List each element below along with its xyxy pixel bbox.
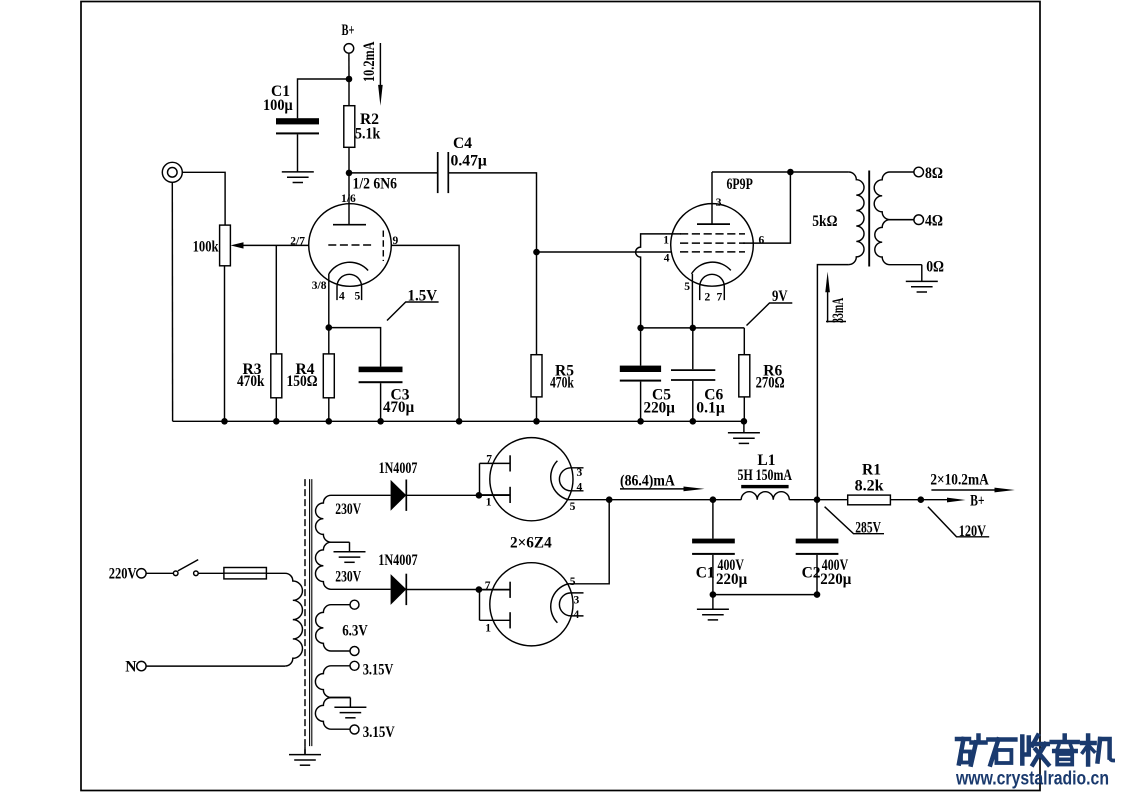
svg-text:7: 7 <box>485 580 491 592</box>
wire cathode node to C3 <box>329 328 381 367</box>
junction dot cathode/C5 <box>637 325 644 332</box>
wire 6.3V top terminal <box>350 600 359 609</box>
capacitor C1 100u <box>276 118 319 124</box>
wire g3 to cathode with hop <box>636 234 681 328</box>
input jack <box>162 162 182 182</box>
6Z4 lower cathode arc <box>551 584 568 623</box>
T1 3.15V winding lower <box>315 698 350 730</box>
svg-text:100μ: 100μ <box>263 97 293 114</box>
6Z4 upper pin7 lead and plate <box>480 462 510 464</box>
svg-text:3.15V: 3.15V <box>363 724 396 741</box>
svg-text:4: 4 <box>339 290 345 302</box>
6Z4 upper pin1 lead and plate <box>480 494 510 496</box>
wire C4 to R5 top corner <box>448 173 536 252</box>
junction dot C2 bottom <box>814 591 821 598</box>
6P9P plate bar <box>697 223 730 225</box>
svg-text:C2: C2 <box>802 564 821 581</box>
tube 6P9P envelope <box>671 204 754 287</box>
svg-text:1N4007: 1N4007 <box>378 552 418 569</box>
svg-text:C4: C4 <box>453 135 472 152</box>
svg-text:1: 1 <box>485 623 491 635</box>
svg-text:230V: 230V <box>335 568 361 585</box>
junction dot cathode node 6N6 <box>326 324 333 331</box>
ground at HV center tap <box>334 552 366 563</box>
switch S1 <box>173 571 178 576</box>
6Z4 lower pin7 lead and plate <box>480 589 510 591</box>
junction dot C1 filter node <box>710 496 717 503</box>
svg-text:C1: C1 <box>696 564 715 581</box>
svg-text:1.5V: 1.5V <box>408 288 438 305</box>
wire L1 to R1 <box>789 499 847 501</box>
svg-text:6.3V: 6.3V <box>342 623 368 640</box>
wire junction to R2 <box>348 79 350 106</box>
6N6 plate lead <box>348 173 350 225</box>
wire HV center tap <box>349 542 351 552</box>
6P9P grid g3 dashed <box>680 233 745 235</box>
wire junction to C1 <box>298 79 350 118</box>
svg-text:7: 7 <box>717 291 723 303</box>
ground bus top circuit <box>173 420 744 422</box>
junction dot rectifier output <box>606 496 613 503</box>
6Z4 lower anode bracket <box>479 590 481 621</box>
ground at 3.15V tap <box>334 707 366 718</box>
capacitor C5 220u <box>640 328 642 366</box>
junction dot 6P9P grid node <box>533 249 540 256</box>
OPT core <box>868 171 870 267</box>
junction dot D1 node <box>476 492 483 499</box>
wire cathode node to R4 <box>328 328 330 354</box>
svg-text:5H 150mA: 5H 150mA <box>738 467 793 484</box>
wire R3 dropline from wiper line <box>275 245 277 354</box>
wire R5 to ground bus <box>536 397 538 421</box>
svg-text:33mA: 33mA <box>830 297 847 323</box>
svg-text:220μ: 220μ <box>820 571 851 588</box>
svg-text:1: 1 <box>486 497 492 509</box>
6P9P grid g1 dashed <box>680 251 745 253</box>
annotation 1.5V pointer <box>387 302 439 321</box>
node 4 ohm terminal <box>914 215 924 225</box>
ground below C1 <box>282 172 314 183</box>
OPT secondary bottom section <box>875 220 922 265</box>
svg-text:2: 2 <box>705 291 711 303</box>
6P9P heater <box>700 274 725 300</box>
resistor R3 body <box>271 354 282 398</box>
T1 HV secondary lower <box>315 542 390 589</box>
wire grid node down to R5 <box>536 252 538 355</box>
resistor R5 body <box>531 355 542 397</box>
junction dot plate node <box>346 170 353 177</box>
wire plate node to C4 <box>349 172 438 174</box>
svg-text:120V: 120V <box>959 523 987 540</box>
svg-text:8.2k: 8.2k <box>855 478 884 495</box>
junction dot C1 bottom <box>710 591 717 598</box>
capacitor C2 filter 220u <box>816 500 818 539</box>
6N6 heater <box>337 274 362 300</box>
svg-text:0.1μ: 0.1μ <box>696 399 725 416</box>
junction dot screen/plate supply <box>787 169 794 176</box>
junction dot D2 node <box>476 586 483 593</box>
annotation 285V pointer <box>825 507 884 534</box>
svg-text:100k: 100k <box>193 239 219 256</box>
wire 3.15V center tap <box>349 698 351 708</box>
svg-text:470μ: 470μ <box>383 399 414 416</box>
diode D2 1N4007 <box>391 574 407 605</box>
annotation 2x10.2mA arrow <box>931 489 998 491</box>
svg-text:4: 4 <box>574 609 580 621</box>
6P9P grid g2 dashed <box>680 242 745 244</box>
capacitor C1 filter 220u <box>712 500 714 539</box>
svg-text:7: 7 <box>486 454 492 466</box>
6Z4 upper heater <box>559 468 583 491</box>
svg-text:0.47μ: 0.47μ <box>451 153 488 170</box>
6P9P cathode lead <box>691 274 693 328</box>
svg-text:9V: 9V <box>772 288 788 305</box>
svg-text:9: 9 <box>393 235 399 247</box>
wire R1 to B+ out <box>890 499 947 501</box>
annotation 9V pointer <box>747 303 793 326</box>
svg-text:150Ω: 150Ω <box>287 373 318 390</box>
svg-text:(86.4)mA: (86.4)mA <box>620 472 676 489</box>
transformer T1 core lines <box>309 479 311 746</box>
svg-text:5: 5 <box>570 576 576 588</box>
diode D1 1N4007 <box>391 480 407 511</box>
svg-text:270Ω: 270Ω <box>756 375 785 392</box>
wire D2 to 6Z4 lower <box>406 589 509 591</box>
wire N to primary bottom <box>146 665 285 667</box>
svg-text:220μ: 220μ <box>644 399 676 416</box>
wire filter caps bottom link <box>713 594 817 596</box>
wire 3.15V bottom terminal <box>350 725 359 734</box>
svg-text:3: 3 <box>574 594 580 606</box>
svg-text:2/7: 2/7 <box>290 236 305 248</box>
wire B+ terminal down to junction <box>348 53 350 79</box>
node 220V terminal <box>137 569 146 578</box>
6P9P cathode arc <box>692 262 731 274</box>
svg-text:470k: 470k <box>550 375 574 392</box>
6Z4 lower heater <box>559 593 583 616</box>
capacitor C6 0.1u <box>692 328 694 369</box>
wire rectifier output rail <box>609 499 741 501</box>
svg-text:1N4007: 1N4007 <box>379 460 418 477</box>
OPT primary winding <box>849 172 864 265</box>
6N6 pin9 internal dashed <box>382 231 384 262</box>
wire R3 to bus <box>275 398 277 422</box>
wire fuse to primary <box>266 573 302 666</box>
ground at R6 / bus <box>743 421 745 433</box>
svg-text:2×6Z4: 2×6Z4 <box>510 535 552 552</box>
tube 6N6 envelope <box>309 204 392 287</box>
svg-text:3/8: 3/8 <box>312 280 327 292</box>
svg-text:220μ: 220μ <box>716 571 747 588</box>
svg-text:6P9P: 6P9P <box>727 176 754 193</box>
OPT primary bottom lead <box>817 265 848 500</box>
svg-text:10.2mA: 10.2mA <box>361 41 378 82</box>
capacitor C4 plates <box>437 152 439 193</box>
T1 HV secondary upper <box>316 495 391 542</box>
junction dot cathode/C6 <box>690 325 697 332</box>
T1 6.3V winding <box>316 605 350 651</box>
pot wiper arrow <box>231 242 244 248</box>
svg-text:5kΩ: 5kΩ <box>812 213 837 230</box>
wire grid node to 6P9P g1 <box>537 251 672 253</box>
svg-text:B+: B+ <box>342 22 355 39</box>
resistor R1 body <box>848 495 891 505</box>
svg-text:www.crystalradio.cn: www.crystalradio.cn <box>955 769 1109 790</box>
ground at 0 ohm <box>906 281 938 292</box>
OPT secondary top section <box>874 172 914 220</box>
6Z4 upper cathode lead pin5 <box>568 499 610 501</box>
annotation 120V pointer <box>928 507 989 537</box>
wire plate to OPT primary <box>712 171 849 173</box>
svg-text:4: 4 <box>664 253 670 265</box>
junction dot B+ out <box>918 496 925 503</box>
tube 6Z4 upper envelope <box>490 438 573 521</box>
wire jack ground drop <box>171 182 173 421</box>
resistor R2 body <box>344 106 355 148</box>
arrow B+ out <box>947 498 966 503</box>
svg-text:N: N <box>125 659 136 676</box>
6N6 grid dashed <box>328 244 371 246</box>
resistor R6 body <box>743 328 745 355</box>
wire 6.3V bottom terminal <box>350 647 359 656</box>
svg-text:4: 4 <box>577 481 583 493</box>
tube 6Z4 lower envelope <box>490 563 573 646</box>
6N6 plate bar <box>333 224 366 226</box>
wire g2 to screen feed <box>743 172 790 243</box>
6Z4 upper anode bracket <box>479 463 481 495</box>
svg-text:285V: 285V <box>855 520 881 537</box>
wire jack to pot top <box>182 172 225 225</box>
ground at core shield <box>304 746 306 755</box>
resistor R4 body <box>323 354 334 398</box>
ground at filter <box>712 595 714 610</box>
wire R4 to bus <box>328 398 330 422</box>
svg-text:R1: R1 <box>862 462 881 479</box>
node B+ terminal top <box>344 44 354 54</box>
6Z4 upper cathode arc <box>551 461 568 500</box>
choke L1 <box>741 492 789 500</box>
svg-text:4Ω: 4Ω <box>925 212 943 229</box>
wire switch to fuse <box>198 572 224 574</box>
svg-text:3: 3 <box>716 197 722 209</box>
svg-text:3.15V: 3.15V <box>363 661 394 678</box>
wire R2 to plate node <box>348 147 350 173</box>
wire pot bottom to ground bus <box>224 266 226 422</box>
wire 0 ohm to ground <box>921 265 923 282</box>
svg-text:5: 5 <box>570 501 576 513</box>
arrow 33mA annotation <box>827 280 829 323</box>
wire 220V to switch <box>146 572 173 574</box>
svg-text:5: 5 <box>355 290 361 302</box>
wire 3.15V top terminal <box>350 661 359 670</box>
watermark logo crystalradio <box>957 736 1113 765</box>
svg-text:1: 1 <box>663 234 669 246</box>
svg-text:8Ω: 8Ω <box>925 165 943 182</box>
svg-text:5.1k: 5.1k <box>355 126 381 143</box>
6N6 cathode lead <box>328 274 330 328</box>
T1 3.15V winding upper <box>315 666 350 698</box>
6Z4 lower pin1 lead and plate <box>480 619 510 621</box>
svg-text:1/2 6N6: 1/2 6N6 <box>353 176 398 193</box>
annotation 86.4mA arrow <box>620 488 690 490</box>
transformer T1 core shield dashed <box>304 479 306 754</box>
fuse F1 <box>224 568 267 579</box>
6P9P plate lead <box>711 172 713 224</box>
node 8 ohm terminal <box>914 167 924 177</box>
node N terminal <box>137 661 146 670</box>
6Z4 lower cathode lead pin5 <box>568 500 610 584</box>
capacitor C3 470u <box>359 367 403 373</box>
svg-text:0Ω: 0Ω <box>926 259 944 276</box>
potentiometer 100k body <box>220 225 231 266</box>
svg-text:3: 3 <box>577 467 583 479</box>
cathode network line <box>641 327 745 329</box>
arrow 10.2mA annotation <box>379 43 381 88</box>
svg-text:B+: B+ <box>970 492 985 509</box>
wire 6N6 pin9 to dropline <box>391 245 459 421</box>
svg-text:220V: 220V <box>109 565 137 582</box>
junction dot at B+ feed <box>346 76 353 83</box>
svg-text:5: 5 <box>684 281 690 293</box>
svg-text:1/6: 1/6 <box>341 193 356 205</box>
bus junction dots <box>221 418 228 425</box>
svg-text:6: 6 <box>759 235 765 247</box>
svg-text:470k: 470k <box>237 373 265 390</box>
svg-text:2×10.2mA: 2×10.2mA <box>930 472 989 489</box>
6N6 cathode arc <box>329 262 368 274</box>
svg-text:230V: 230V <box>335 501 361 518</box>
wire D1 to 6Z4 upper <box>406 494 509 496</box>
junction dot 285V node <box>814 496 821 503</box>
